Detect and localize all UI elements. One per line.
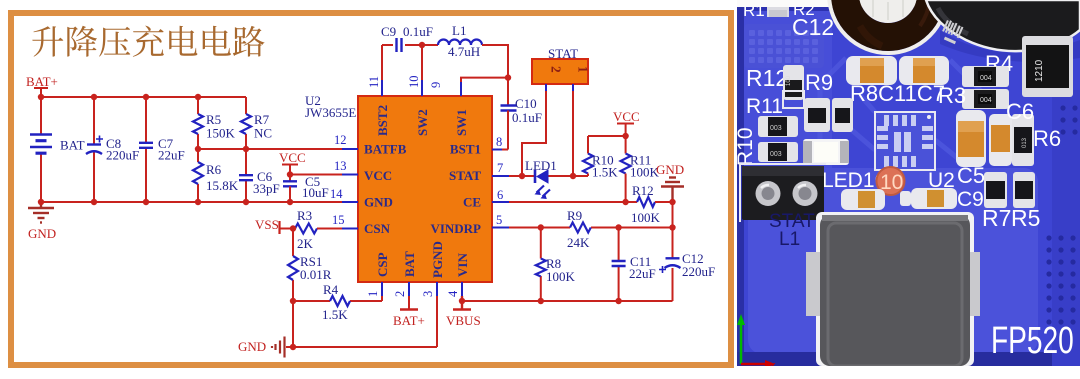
wire VCC to R10 R11: [588, 136, 626, 154]
silkscreen boxes R1 R2 top-left: [743, 0, 815, 20]
pin 13 stub: [334, 159, 358, 175]
svg-text:L1: L1: [452, 23, 466, 38]
resistor R5: [193, 112, 236, 141]
wire R6 stubs: [197, 149, 199, 202]
chip resistor R3: [962, 89, 1009, 109]
op-amp U2 IC body JW3655E: [305, 93, 492, 282]
chip 1210 top-right: [1022, 36, 1073, 97]
pin 11 stub: [367, 76, 382, 96]
wire C9 to L1: [405, 45, 438, 80]
svg-text:BAT: BAT: [60, 138, 85, 153]
svg-text:2K: 2K: [297, 236, 314, 251]
wire C8 stubs: [93, 97, 95, 202]
ground symbol lower-left: [28, 202, 54, 223]
chip under R11: [758, 116, 798, 137]
resistor R7: [241, 112, 272, 141]
wire STAT pin2 to LED: [545, 84, 547, 91]
svg-text:14: 14: [330, 187, 343, 201]
svg-text:1: 1: [366, 291, 380, 297]
svg-text:003: 003: [770, 125, 782, 132]
wire pin 13 to VCC: [290, 174, 342, 176]
chip below R11: [758, 142, 798, 162]
pcb paste dot grid top-left: [744, 24, 824, 68]
svg-text:100K: 100K: [546, 269, 576, 284]
svg-text:150K: 150K: [206, 126, 236, 141]
svg-text:GND: GND: [364, 195, 393, 210]
svg-text:10: 10: [880, 171, 903, 194]
wire R8 branch: [540, 228, 542, 302]
wire pin 11 up to C9: [382, 45, 393, 80]
pcb dark right zone: [1052, 90, 1080, 366]
svg-text:C9: C9: [381, 24, 396, 39]
resistor R4: [322, 282, 350, 322]
wire bottom GND rail: [41, 201, 342, 203]
resistor R6: [193, 162, 239, 193]
svg-text:11: 11: [367, 76, 381, 88]
svg-text:10uF: 10uF: [302, 185, 329, 200]
chip pair R7 R5: [984, 172, 1035, 208]
svg-text:NC: NC: [254, 126, 272, 141]
pin 9 stub: [429, 82, 461, 96]
svg-text:R10: R10: [734, 127, 757, 166]
wire pin 5 VINDRP row: [509, 227, 673, 229]
svg-text:JW3655E: JW3655E: [305, 105, 356, 120]
svg-text:9: 9: [429, 82, 443, 88]
node VCC right port: [613, 109, 640, 136]
pin names right column: [430, 142, 481, 237]
tantalum cap left (C11): [846, 56, 897, 85]
chip cap C9: [900, 188, 957, 209]
wire RS1 to GND row: [286, 296, 437, 347]
svg-text:BAT+: BAT+: [393, 313, 425, 328]
resistor R9: [567, 208, 591, 250]
red circle C10 via: [877, 167, 905, 195]
svg-text:12: 12: [334, 133, 347, 147]
svg-text:7: 7: [497, 161, 503, 175]
node VSS port: [255, 217, 295, 234]
svg-text:R12: R12: [632, 183, 654, 198]
capacitor C5: [283, 174, 329, 202]
svg-text:R3: R3: [297, 208, 312, 223]
svg-text:STAT: STAT: [449, 168, 481, 183]
svg-text:013: 013: [1022, 137, 1028, 148]
tantalum cap C5: [956, 110, 986, 167]
pcb board base: [737, 0, 1080, 366]
svg-text:VINDRP: VINDRP: [430, 221, 481, 236]
chip resistor R4: [962, 66, 1009, 87]
LED LED1: [525, 158, 557, 199]
svg-text:VCC: VCC: [279, 150, 306, 165]
resistor R3: [295, 208, 317, 251]
svg-text:1.5K: 1.5K: [322, 307, 348, 322]
svg-text:BATFB: BATFB: [364, 142, 407, 157]
svg-text:24K: 24K: [567, 235, 590, 250]
svg-text:C10: C10: [515, 96, 537, 111]
wire bottom-right rail: [462, 300, 673, 302]
pin 2 stub: [393, 282, 409, 297]
schematic title 升降压充电电路: [32, 26, 264, 57]
wire RS1 branch: [292, 229, 294, 302]
svg-text:100K: 100K: [631, 210, 661, 225]
white strip above board top: [737, 0, 1080, 7]
svg-text:R11: R11: [746, 95, 783, 118]
svg-text:R12: R12: [746, 65, 788, 91]
svg-text:CSP: CSP: [375, 252, 390, 277]
pin 5 stub: [492, 213, 509, 228]
svg-text:004: 004: [980, 97, 992, 104]
svg-text:R9: R9: [567, 208, 582, 223]
capacitor C6: [239, 169, 280, 196]
resistor R10: [583, 153, 618, 180]
pcb faint traces: [820, 58, 985, 160]
svg-text:R6: R6: [206, 162, 222, 177]
pin 10 stub: [407, 76, 422, 97]
resistor R12: [631, 183, 673, 225]
svg-text:15: 15: [332, 213, 345, 227]
svg-text:33pF: 33pF: [253, 181, 280, 196]
svg-text:x: x: [770, 360, 776, 372]
pin 6 stub: [492, 188, 509, 202]
pin 15 stub: [332, 213, 358, 229]
wire R7 stubs: [245, 97, 247, 149]
PCB photo panel: [734, 0, 1080, 372]
small orange cap right: [989, 114, 1012, 166]
tantalum cap right (C7): [899, 56, 949, 85]
svg-text:BST1: BST1: [450, 142, 481, 157]
svg-text:C9: C9: [957, 188, 984, 211]
svg-text:15.8K: 15.8K: [206, 178, 239, 193]
svg-text:1.5K: 1.5K: [592, 165, 618, 180]
connector STAT black header: [740, 164, 826, 222]
svg-text:0.1uF: 0.1uF: [512, 110, 542, 125]
svg-text:1210: 1210: [1034, 59, 1045, 82]
svg-text:220uF: 220uF: [106, 148, 139, 163]
chip resistor R6: [1012, 114, 1034, 166]
white LED component: [803, 139, 849, 165]
pin 4 stub: [446, 282, 462, 297]
svg-text:2: 2: [549, 66, 564, 73]
svg-text:FP520: FP520: [991, 320, 1074, 362]
svg-text:L1: L1: [779, 229, 800, 250]
pin 3 stub: [421, 282, 437, 297]
chip pair under R9: [804, 98, 853, 132]
svg-text:220uF: 220uF: [682, 264, 715, 279]
svg-text:1: 1: [576, 66, 591, 73]
wire pin 6 CE row: [509, 201, 637, 203]
svg-text:R8C11C7: R8C11C7: [850, 81, 945, 106]
pin 1 stub: [366, 282, 382, 297]
svg-text:VBUS: VBUS: [446, 313, 481, 328]
capacitor C7: [139, 136, 185, 163]
svg-text:004: 004: [980, 75, 992, 82]
svg-text:C12: C12: [792, 14, 834, 40]
wire C7 stubs: [145, 97, 147, 202]
border frame: [11, 13, 731, 365]
svg-text:VCC: VCC: [364, 168, 392, 183]
resistor RS1: [288, 254, 332, 282]
node VCC left port: [279, 150, 306, 181]
svg-text:CSN: CSN: [364, 221, 391, 236]
pin 7 stub: [492, 161, 509, 176]
svg-text:100: 100: [786, 75, 792, 86]
svg-text:BAT+: BAT+: [26, 74, 58, 89]
svg-text:003: 003: [770, 151, 782, 158]
wire STAT pin1 down: [572, 84, 574, 91]
pcb lighter top-left zone: [737, 11, 832, 175]
svg-text:BAT: BAT: [402, 251, 417, 277]
svg-text:2: 2: [393, 291, 407, 297]
wire top rail: [41, 96, 246, 98]
pin names bottom row vertical: [375, 241, 470, 278]
svg-text:SW2: SW2: [415, 109, 430, 136]
pin 12 stub: [334, 133, 358, 149]
wire pin 7 LED row: [509, 175, 588, 177]
node GND right: [656, 162, 684, 202]
big gray inductor body: [806, 212, 980, 366]
svg-text:R5: R5: [1011, 205, 1040, 231]
capacitor C8: [86, 136, 139, 163]
wire C6 stubs: [245, 149, 247, 202]
svg-text:13: 13: [334, 159, 347, 173]
svg-text:GND: GND: [238, 339, 266, 354]
svg-text:GND: GND: [656, 162, 684, 177]
IC footprint U2: [875, 112, 935, 170]
svg-text:CE: CE: [463, 195, 481, 210]
node BAT+ top-left port: [26, 74, 58, 97]
black component top-right: [926, 0, 1080, 51]
connector STAT: [532, 46, 591, 84]
pin names top row vertical: [375, 105, 469, 136]
svg-text:5: 5: [496, 213, 502, 227]
wire R3 to pin 15: [317, 228, 342, 230]
green Y axis: [737, 314, 776, 372]
via dots right side: [1046, 105, 1077, 324]
svg-text:3: 3: [421, 291, 435, 297]
svg-text:4.7uH: 4.7uH: [448, 44, 480, 59]
pin names left column: [364, 142, 407, 237]
pin 8 stub: [492, 135, 502, 150]
pcb lighter bottom zone: [748, 168, 1038, 354]
wire C12 vertical: [672, 202, 674, 301]
pcb dark bottom edge: [737, 352, 1080, 366]
pin 14 stub: [330, 187, 358, 202]
svg-text:0.1uF: 0.1uF: [403, 24, 433, 39]
svg-text:VSS: VSS: [255, 217, 279, 232]
svg-text:22uF: 22uF: [629, 266, 656, 281]
svg-text:10: 10: [407, 76, 421, 89]
inductor torus top: [829, 0, 947, 53]
svg-text:6: 6: [497, 188, 503, 202]
node BAT+ bottom port: [393, 296, 425, 328]
svg-text:R7: R7: [982, 205, 1011, 231]
battery BAT: [30, 135, 85, 154]
schematic background: [0, 0, 737, 379]
svg-text:0.01R: 0.01R: [300, 267, 332, 282]
capacitor C12: [659, 251, 715, 279]
svg-text:C6: C6: [1006, 99, 1034, 124]
capacitor C9: [381, 24, 433, 52]
wire R5 stubs: [197, 97, 199, 149]
wire BATFB mid rail to pin 12: [198, 148, 342, 150]
svg-text:R6: R6: [1033, 126, 1061, 151]
svg-text:VCC: VCC: [613, 109, 640, 124]
inductor L1: [438, 23, 482, 59]
resistor R8: [536, 256, 576, 284]
chip resistor by R12: [783, 65, 804, 100]
svg-text:8: 8: [496, 135, 502, 149]
ground symbol bottom-center: [272, 337, 285, 358]
pcb blob shadow: [940, 30, 1080, 62]
wire C11 branch: [618, 228, 620, 302]
wire battery stubs: [40, 97, 42, 202]
wire L1 to SW1/C10: [461, 45, 508, 105]
svg-text:PGND: PGND: [430, 241, 445, 278]
svg-text:BST2: BST2: [375, 105, 390, 136]
resistor R11: [621, 153, 660, 203]
silkscreen empty box: [783, 91, 804, 108]
svg-text:LED1: LED1: [525, 158, 557, 173]
wire R4 row: [293, 296, 382, 301]
svg-text:SW1: SW1: [454, 109, 469, 136]
capacitor C11: [612, 254, 656, 281]
chip cap below LED label: [841, 189, 885, 210]
svg-text:GND: GND: [28, 226, 56, 241]
pcb dark left edge: [737, 0, 744, 366]
svg-text:R9: R9: [805, 70, 833, 95]
svg-text:R4: R4: [323, 282, 339, 297]
capacitor C10: [501, 96, 542, 150]
node VBUS port: [446, 296, 481, 328]
svg-text:22uF: 22uF: [158, 148, 185, 163]
svg-text:VIN: VIN: [455, 253, 470, 277]
svg-text:R3: R3: [938, 83, 966, 108]
svg-text:4: 4: [446, 290, 460, 297]
